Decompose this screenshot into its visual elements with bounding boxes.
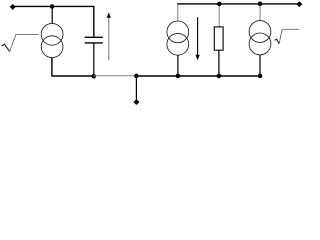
node junction I3 bottom bbox=[258, 74, 263, 79]
wire current source I1 top lead bbox=[51, 6, 53, 23]
node junction I3 top bbox=[258, 2, 263, 7]
wire gray bottom segment bbox=[94, 75, 137, 77]
node terminal top right bbox=[296, 1, 302, 7]
node output terminal bottom bbox=[133, 99, 139, 105]
label sqrt overline for I1 bbox=[2, 44, 10, 51]
wire I3 bottom lead bbox=[259, 55, 261, 76]
wire top-left horizontal with capacitor corner bbox=[13, 6, 94, 36]
current arrow down beside I2 bbox=[197, 17, 199, 55]
capacitor C1 bottom plate bbox=[85, 42, 103, 44]
wire resistor R top lead (gray) bbox=[218, 4, 220, 27]
label sqrt overline for I3 bbox=[275, 39, 280, 44]
node junction output stub bbox=[134, 74, 139, 79]
resistor R (rectangle) bbox=[214, 27, 223, 50]
node junction top of I1 bbox=[50, 4, 55, 9]
node junction resistor bottom bbox=[217, 74, 222, 79]
capacitor C1 top plate bbox=[85, 36, 103, 38]
node junction I2 bottom bbox=[176, 74, 181, 79]
wire I2 bottom lead bbox=[177, 55, 179, 76]
wire I1 bottom lead and bottom-left wire bbox=[52, 58, 94, 76]
wire capacitor bottom lead bbox=[93, 44, 95, 77]
current source I2 (noise current source, double-circle IEC symbol) bbox=[167, 21, 189, 55]
wire resistor bottom lead bbox=[218, 50, 220, 76]
wire top-right horizontal bbox=[177, 3, 299, 5]
node junction resistor top bbox=[217, 2, 222, 7]
wire current source I2 top lead (gray) bbox=[177, 4, 179, 21]
voltage arrow up (gray shaft) at capacitor bbox=[108, 17, 110, 60]
current source I1 (noise current source, double-circle IEC symbol) bbox=[41, 23, 63, 57]
node input terminal left bbox=[10, 4, 16, 10]
wire current source I3 top lead (gray) bbox=[259, 4, 261, 20]
wire output stub down bbox=[135, 76, 137, 99]
wire bottom middle-right bbox=[136, 75, 260, 77]
node junction capacitor bottom bbox=[92, 74, 97, 79]
current source I3 (noise current source, double-circle IEC symbol) bbox=[249, 21, 271, 55]
